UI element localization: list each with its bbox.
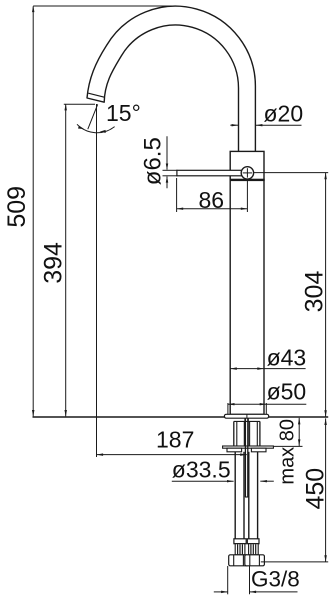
spout tip seam xyxy=(88,93,105,97)
dimension o33.5 (shank) xyxy=(172,480,234,482)
dimension 450 (hose length) xyxy=(325,418,327,562)
right hose xyxy=(248,452,250,539)
svg-text:G3/8: G3/8 xyxy=(251,567,300,592)
svg-text:15°: 15° xyxy=(106,100,141,126)
svg-text:ø33.5: ø33.5 xyxy=(172,457,231,483)
body seam band xyxy=(230,179,265,181)
mounting washer xyxy=(223,446,274,448)
dimension 304 xyxy=(325,173,327,417)
svg-text:ø50: ø50 xyxy=(267,379,307,405)
svg-text:187: 187 xyxy=(156,427,194,453)
stud below washer xyxy=(244,446,246,497)
extension line from pivot to 304 dim xyxy=(254,172,328,174)
svg-text:max 80: max 80 xyxy=(277,419,299,485)
base flange xyxy=(224,414,268,418)
crimp hatch left xyxy=(235,544,245,555)
hoses inside shank xyxy=(236,421,238,446)
crimp hatch right xyxy=(249,544,259,555)
dimension 187 (spout reach) xyxy=(97,454,247,456)
dimension 509 xyxy=(33,6,176,416)
faucet body xyxy=(230,151,264,414)
left hose xyxy=(234,452,236,539)
dimension 394 xyxy=(64,104,95,416)
dimension G3/8 (connector) xyxy=(227,566,229,594)
threaded shank under flange xyxy=(234,420,260,422)
svg-text:509: 509 xyxy=(3,186,31,228)
svg-text:304: 304 xyxy=(301,271,329,313)
node center extension below pivot xyxy=(246,181,248,212)
mounting nut left xyxy=(227,448,242,452)
svg-text:ø43: ø43 xyxy=(267,345,307,371)
svg-text:86: 86 xyxy=(199,187,225,213)
hose ferrule right xyxy=(247,539,259,544)
dimension o43 (body) xyxy=(230,368,305,370)
dimension max 80 (deck thickness) xyxy=(298,418,300,446)
dimension o6.5 (lever thickness) xyxy=(163,136,178,188)
15 degree angle indicator xyxy=(77,104,115,457)
deck / counter line xyxy=(33,416,329,418)
pivot circle xyxy=(241,167,253,179)
hose ferrule left xyxy=(234,539,246,544)
lever handle bar xyxy=(177,170,243,176)
svg-text:394: 394 xyxy=(39,242,67,284)
svg-text:450: 450 xyxy=(302,468,330,510)
svg-text:ø20: ø20 xyxy=(264,100,304,126)
connector nut right G3/8 xyxy=(245,555,265,566)
spout (curved tube) xyxy=(87,6,255,152)
mounting nut right xyxy=(251,448,266,452)
dimension 86 xyxy=(177,208,248,210)
svg-text:ø6.5: ø6.5 xyxy=(139,137,166,185)
threaded stud (upper) xyxy=(244,418,246,446)
connector nut left G3/8 xyxy=(229,555,249,566)
dimension o50 (flange) xyxy=(228,403,306,405)
dimension o20 (spout tube) xyxy=(230,124,238,126)
